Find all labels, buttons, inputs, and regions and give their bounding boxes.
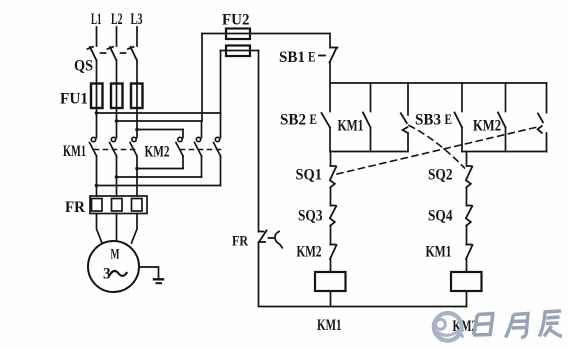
- wire motor to ground: [139, 267, 159, 279]
- wire KM2 pole B drop: [201, 156, 203, 177]
- fuse FU1 pole 1: [96, 84, 98, 108]
- wire FR to motor 3: [132, 214, 138, 244]
- wire FU2 fuse1 left drop x202: [201, 34, 203, 122]
- svg-text:SQ3: SQ3: [298, 208, 323, 225]
- contactor aux KM2 branch: [505, 83, 507, 112]
- fuse FU2 element 1: [202, 33, 330, 35]
- limit contact SQ2-linked NO branch: [407, 83, 409, 115]
- pushbutton SB2 branch: [329, 83, 331, 112]
- FR heater 1: [92, 199, 103, 212]
- svg-text:SB2: SB2: [280, 112, 306, 129]
- svg-text:KM1: KM1: [338, 118, 364, 135]
- watermark char 月: [506, 314, 529, 338]
- contactor KM1 main contact 1: [90, 137, 97, 156]
- svg-text:KM2: KM2: [473, 118, 501, 135]
- wire KM1nc-coil: [466, 259, 468, 272]
- mechanical link dash SQ1 to right contact: [337, 127, 540, 175]
- wire SQ1-SQ3: [330, 188, 332, 206]
- FR heater 3: [132, 199, 143, 212]
- svg-text:E: E: [308, 50, 316, 66]
- contactor KM2 main contact 1: [176, 137, 183, 156]
- switch QS pole 3: [128, 47, 137, 61]
- svg-text:SQ2: SQ2: [428, 167, 453, 184]
- wire KM1 pole drops to FR: [96, 156, 98, 196]
- watermark char 辰: [540, 311, 563, 337]
- svg-text:KM2: KM2: [145, 144, 170, 161]
- mechanical link dash SQ2 to mid contact: [409, 126, 465, 169]
- wire bus2 right: [462, 151, 547, 153]
- wire crossover y177 L2-KM2B: [117, 176, 202, 178]
- svg-text:L1: L1: [91, 11, 102, 28]
- switch QS pole 1: [88, 47, 97, 61]
- left leg: wire bus2L to SQ1: [330, 152, 332, 167]
- watermark char 日: [474, 314, 493, 337]
- wire SQ3-KM2nc: [330, 226, 332, 245]
- wire bus1: [330, 82, 547, 84]
- svg-text:SQ1: SQ1: [296, 167, 323, 184]
- wire crossover y168.5 L3-KM2A: [137, 168, 183, 170]
- wire control left rail bottom: [258, 242, 260, 307]
- right leg: wire bus2R to SQ2: [466, 152, 468, 167]
- contactor KM1 main contact 2: [110, 137, 117, 156]
- contactor KM1 NC interlock: [466, 245, 473, 260]
- svg-text:FU1: FU1: [60, 91, 88, 108]
- wire bus2 left: [330, 151, 408, 153]
- wire top feed to SB1: [329, 34, 331, 48]
- fuse FU1 pole 3: [136, 84, 138, 108]
- ground symbol: [154, 278, 163, 280]
- wire coil KM1 to bottom bus: [330, 291, 332, 307]
- limit switch SQ1 (NC): [330, 166, 336, 188]
- contactor KM2 main contact 2: [195, 137, 202, 156]
- limit switch SQ3 (NC): [330, 206, 336, 226]
- coil KM2: [451, 272, 482, 291]
- svg-text:QS: QS: [74, 58, 93, 75]
- pushbutton SB3 branch: [461, 83, 463, 112]
- wire KM2 pole C drop: [220, 156, 222, 186]
- wire KM2 pole A drop: [182, 156, 184, 169]
- wire drops to KM2 contact tops: [182, 130, 184, 138]
- wire feed L2 to KM2 branch y121: [117, 120, 202, 122]
- thermal relay FR box: [90, 196, 147, 214]
- wire coil KM2 to bottom bus: [466, 291, 468, 307]
- wire crossover y185.5 L1-KM2C: [97, 185, 221, 187]
- wire FR to motor 1: [97, 214, 103, 244]
- SB1 E dash: [319, 55, 325, 57]
- svg-text:KM1: KM1: [426, 244, 452, 261]
- limit switch SQ4 (NC): [466, 206, 472, 226]
- pushbutton SB1 (NC stop): [330, 48, 338, 63]
- FR heater 2: [112, 199, 123, 212]
- limit contact SQ1-linked NO branch: [546, 83, 548, 113]
- wire phase drops below FU1 to KM1 contacts: [96, 108, 98, 138]
- watermark logo Q: [434, 313, 464, 341]
- coil KM1: [315, 272, 346, 291]
- switch QS pole 2: [108, 47, 117, 61]
- wire L3 drop to QS: [136, 27, 138, 46]
- svg-text:L3: L3: [131, 11, 143, 28]
- svg-text:KM2: KM2: [297, 244, 322, 261]
- svg-text:E: E: [310, 112, 318, 128]
- wire L1 drop to QS: [96, 27, 98, 46]
- wire QS to FU1 (3 poles): [96, 61, 98, 85]
- wire L2 drop to QS: [116, 27, 118, 46]
- wire FU2 fuse2 left drop x220.5: [220, 51, 222, 114]
- wire feed L1 to KM2 branch y113: [97, 112, 221, 114]
- wire KM2nc-coil: [330, 259, 332, 272]
- contactor aux KM1 branch: [370, 83, 372, 112]
- svg-text:KM1: KM1: [317, 317, 342, 334]
- svg-text:SB1: SB1: [279, 49, 305, 66]
- svg-text:M: M: [111, 247, 120, 263]
- wire control left rail top: [258, 51, 260, 232]
- contactor KM2 NC interlock: [330, 245, 337, 260]
- wire SQ2-SQ4: [466, 188, 468, 206]
- svg-text:L2: L2: [111, 11, 123, 28]
- QS linkage dashes: [101, 52, 106, 54]
- svg-text:FR: FR: [65, 199, 85, 216]
- svg-text:SQ4: SQ4: [428, 208, 453, 225]
- wire FR to motor 2: [116, 214, 118, 242]
- contactor KM2 main contact 3: [214, 137, 221, 156]
- wire feed L3 to KM2 branch y129.5: [137, 129, 183, 131]
- svg-text:KM1: KM1: [63, 143, 86, 160]
- contactor KM1 main contact 3: [130, 137, 137, 156]
- svg-text:E: E: [445, 112, 453, 128]
- svg-text:FR: FR: [232, 234, 248, 250]
- wire bottom bus: [259, 306, 467, 308]
- svg-text:FU2: FU2: [222, 12, 250, 29]
- thermal contact FR (control): [259, 231, 283, 248]
- limit switch SQ2 (NC): [466, 166, 472, 188]
- wire SQ4-KM1nc: [466, 226, 468, 245]
- wire SB1 to bus1: [329, 63, 331, 84]
- motor M circle: [88, 241, 139, 292]
- KM2 linkage dashes: [181, 149, 223, 151]
- KM1 linkage dashes: [95, 149, 138, 151]
- fuse FU1 pole 2: [116, 84, 118, 108]
- svg-text:SB3: SB3: [415, 112, 441, 129]
- fuse FU2 element 2: [221, 50, 259, 52]
